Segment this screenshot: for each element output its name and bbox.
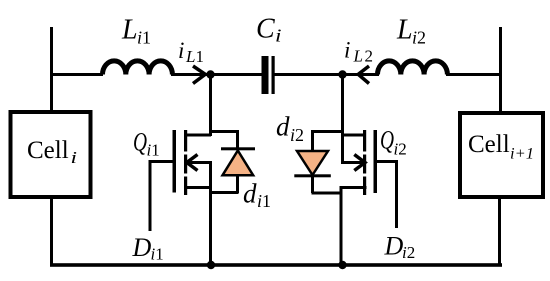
label i_L1 [178,38,204,66]
svg-text:i: i [178,38,184,63]
d_i2 bottom wire [312,192,342,195]
label Q_i1 [133,128,160,160]
Q_i1 drain lead [185,134,211,137]
d_i1 bottom wire [209,191,239,194]
Q_i1 source lead [185,186,211,189]
wire Cell_i+1 bottom to rail [498,196,501,265]
svg-text:Q: Q [133,128,147,157]
svg-text:L: L [396,15,413,46]
d_i2 top vertical [311,130,314,151]
Q_i2 channel bar (3 dashes) [363,130,366,195]
Q_i1 channel bar (3 dashes) [184,130,187,195]
node B junction dot [338,70,346,78]
svg-text:Cell: Cell [27,137,69,164]
svg-text:L: L [353,47,363,66]
wire inductor L_i1 to node A [171,73,212,76]
current arrow i_L1 [193,66,205,84]
wire capacitor to node B [274,73,344,76]
label L_i2 [396,15,426,48]
label d_i2 [276,112,304,146]
Q_i1 gate vertical wire [149,160,152,231]
diode d_i1 top wire [209,130,239,133]
Q_i2 gate vertical wire [395,160,398,228]
svg-text:i2: i2 [412,28,426,48]
wire node A to capacitor [209,73,262,76]
svg-text:i1: i1 [147,141,160,160]
Cell_i+1 box [460,113,543,197]
Cell_i box [11,112,91,197]
svg-text:i2: i2 [402,243,415,262]
svg-text:L: L [121,15,138,46]
d_i1 anode vertical [236,175,239,193]
svg-text:i+1: i+1 [510,146,534,163]
svg-text:L: L [185,47,195,66]
transistor Q_i1 drain vertical wire [209,74,212,136]
d_i1 triangle [223,151,254,176]
d_i2 cathode bar [294,174,331,177]
inductor L_i2 [378,61,448,75]
inductor L_i1 [103,61,173,75]
label D_i2 [384,232,416,263]
svg-text:Cell: Cell [468,131,510,158]
label L_i1 [121,15,151,48]
diode d_i2 top wire [312,130,343,133]
label D_i1 [132,233,164,264]
wire node B to inductor L_i2 [341,73,379,76]
current arrow i_L2 [358,66,369,84]
svg-text:i2: i2 [394,140,407,159]
bottom rail wire [50,263,502,267]
Q_i1 gate bar [173,130,177,193]
svg-text:i1: i1 [137,28,151,48]
wire top rail left segment [50,73,103,76]
label Cell_i [27,137,77,167]
wire right vertical stub from top down to Cell_i+1 box [499,27,502,111]
label C_i [256,14,282,46]
Q_i2 source arrow [342,155,365,171]
Q_i1 source arrow [187,155,211,171]
label i_L2 [344,38,373,66]
label d_i1 [243,179,271,212]
d_i2 triangle [297,151,328,175]
label Cell_i+1 [468,131,534,163]
Q_i1 source vertical wire to rail [209,161,212,265]
Q_i1 gate lead [149,160,174,163]
svg-text:i1: i1 [151,245,164,264]
Q_i2 drain lead [341,134,366,137]
wire inductor L_i2 to right vertical [446,73,502,76]
svg-text:Q: Q [380,126,394,155]
svg-text:i: i [344,38,350,63]
junction dot bottom left [207,261,215,269]
Q_i2 gate lead [376,160,398,163]
svg-text:1: 1 [196,47,205,66]
svg-text:d: d [276,112,290,142]
svg-text:i: i [71,148,78,167]
svg-text:d: d [243,179,257,209]
d_i1 cathode vertical [236,130,239,149]
svg-text:i1: i1 [257,191,271,211]
wire left vertical stub from top down to Cell_i box [50,27,53,110]
label Q_i2 [380,126,407,159]
d_i1 cathode bar [221,147,255,150]
svg-text:D: D [384,232,404,261]
junction dot bottom right [338,261,346,269]
wire Cell_i bottom to rail [50,195,53,265]
svg-text:i2: i2 [290,125,304,145]
svg-text:C: C [256,14,275,45]
Q_i2 gate bar [374,130,378,193]
svg-text:D: D [132,233,152,262]
Q_i2 source lead [340,186,367,189]
svg-text:i: i [275,26,282,46]
capacitor C_i [262,56,275,94]
d_i2 anode vertical [311,176,314,193]
node A junction dot [206,70,214,78]
Q_i2 source vertical wire to rail [340,186,343,265]
svg-text:2: 2 [365,47,374,66]
transistor Q_i2 drain vertical wire (node B down to arrow shaft) [341,74,344,164]
